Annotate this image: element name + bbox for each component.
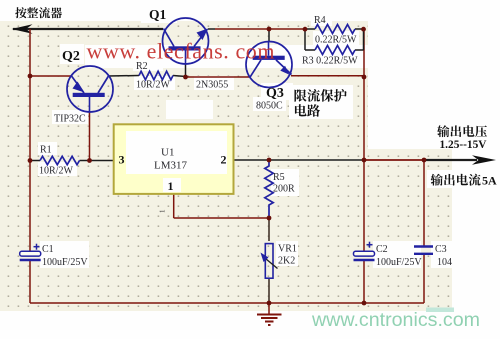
label 按整流器 (to rectifier)	[15, 7, 26, 18]
junction R3 R4 right	[361, 27, 366, 32]
transistor Q3 8050C	[246, 42, 292, 88]
svg-text:1: 1	[159, 209, 167, 213]
white zones	[0, 0, 500, 21]
wire node A to Q3 collector	[186, 76, 250, 78]
svg-text:TIP32C: TIP32C	[54, 114, 86, 125]
regulator U1 LM317	[114, 124, 234, 194]
wire top-left arrow line (to rectifier)	[13, 28, 163, 30]
label 输出电流 5A (output current)	[431, 174, 443, 186]
svg-text:R3 0.22R/5W: R3 0.22R/5W	[302, 56, 358, 67]
svg-text:www. elecfans. com: www. elecfans. com	[87, 39, 275, 64]
junction output rail / C3	[422, 158, 427, 163]
wire input to Q2 emitter	[30, 75, 72, 77]
wire C2 drop from output rail	[363, 160, 365, 252]
wire U1 pin1 down	[173, 194, 175, 218]
svg-text:104: 104	[437, 257, 452, 268]
svg-text:2N3055: 2N3055	[196, 80, 228, 91]
wire C2 to bottom rail	[363, 261, 365, 303]
svg-text:2: 2	[221, 153, 227, 167]
arrow output	[472, 155, 496, 165]
svg-text:8050C: 8050C	[256, 101, 283, 112]
svg-text:LM317: LM317	[154, 160, 188, 172]
resistor R4	[315, 25, 355, 34]
svg-text:R5: R5	[273, 172, 285, 183]
wire R2 to node A	[173, 76, 186, 77]
svg-text:C1: C1	[42, 244, 54, 255]
wire sense node vertical x364	[363, 29, 365, 160]
svg-text:5A: 5A	[482, 174, 497, 188]
capacitor C2	[367, 244, 373, 246]
junction R1 / Q2 base / U1 pin3	[87, 158, 92, 163]
label patches	[141, 4, 177, 23]
label 输出电压 (output voltage)	[437, 125, 449, 137]
junction R3 R4 left	[303, 27, 308, 32]
svg-text:3: 3	[119, 153, 125, 167]
junction output rail / C2	[362, 158, 367, 163]
wire top rail Q1 emitter to R3R4	[208, 28, 215, 30]
junction Q3 emitter / sense node	[362, 75, 367, 80]
junction input rail / R1	[28, 158, 33, 163]
resistor R3	[315, 46, 355, 55]
transistor Q1 2N3055	[163, 18, 209, 64]
svg-text:C3: C3	[435, 244, 447, 255]
wire left rail lower	[29, 261, 31, 303]
junction bottom rail / VR1 / ground	[267, 301, 272, 306]
junction output rail / R5	[267, 158, 272, 163]
svg-text:1: 1	[168, 179, 174, 193]
junction bottom rail / C2	[362, 301, 367, 306]
svg-text:100uF/25V: 100uF/25V	[376, 257, 422, 268]
wire C3 drop	[423, 160, 425, 246]
svg-text:10R/2W: 10R/2W	[39, 166, 73, 177]
wire VR1 to ground	[268, 278, 270, 303]
arrow to rectifier	[12, 24, 33, 33]
potentiometer VR1	[265, 244, 273, 279]
ground	[268, 303, 270, 315]
svg-text:C2: C2	[376, 244, 388, 255]
svg-text:1.25--15V: 1.25--15V	[440, 137, 487, 151]
wire pin1 to R5 bottom	[174, 217, 269, 219]
wire Q2 base to R1 node	[89, 112, 91, 161]
wire U1 pin2 to output node	[234, 159, 365, 161]
wire Q3 emitter to sense node	[291, 75, 364, 77]
wire Q2 collector to R2	[109, 75, 140, 78]
capacitor C3	[414, 245, 433, 247]
resistor R5	[265, 161, 273, 219]
junction top rail / Q3 base	[267, 27, 272, 32]
svg-text:10R/2W: 10R/2W	[136, 80, 170, 91]
junction input rail / Q2 emitter	[28, 74, 33, 79]
wire left rail upper	[29, 29, 31, 252]
svg-text:Q1: Q1	[149, 7, 167, 22]
R3 R4 parallel connection box	[304, 29, 306, 50]
svg-text:Q3: Q3	[266, 86, 284, 101]
transistor Q2 TIP32C	[67, 66, 113, 112]
wire C3 to bottom rail	[423, 254, 425, 303]
wire output to arrow	[424, 159, 477, 161]
svg-text:R4: R4	[314, 15, 326, 26]
svg-text:www.cntronics.com: www.cntronics.com	[311, 309, 480, 331]
wire bottom rail	[30, 302, 424, 304]
svg-text:200R: 200R	[273, 184, 295, 195]
wire Q3 base up	[268, 29, 270, 42]
svg-text:U1: U1	[161, 147, 174, 159]
wire output node to C3	[364, 159, 424, 161]
watermark ghost smudge	[426, 308, 454, 313]
junction node A: R2 / Q1 base / Q3 collector	[183, 75, 188, 80]
svg-text:VR1: VR1	[278, 244, 297, 255]
label 限流保护 电路 (current limit protection circuit)	[294, 89, 306, 101]
svg-text:Q2: Q2	[62, 49, 80, 64]
capacitor C1	[34, 246, 40, 248]
svg-text:100uF/25V: 100uF/25V	[42, 257, 88, 268]
resistor R2	[139, 71, 173, 79]
wire R5 node to VR1	[268, 218, 270, 241]
junction pin1 / R5 / VR1	[267, 216, 272, 221]
wire Q1 base drop	[185, 64, 187, 77]
svg-text:0.22R/5W: 0.22R/5W	[315, 35, 357, 46]
svg-text:2K2: 2K2	[278, 256, 295, 267]
svg-text:R1: R1	[40, 145, 52, 156]
wire R1 row: rail to U1 pin3	[30, 160, 40, 162]
resistor R1	[40, 156, 80, 164]
